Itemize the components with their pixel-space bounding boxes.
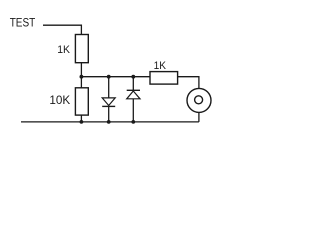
wire D1 top lead (108, 77, 110, 99)
junction D2 top (131, 75, 135, 79)
resistor R2 10K body (75, 88, 88, 115)
wire D1 bottom lead (108, 106, 110, 122)
wire D2 top lead (132, 77, 134, 91)
wire middle horizontal bus (81, 77, 198, 89)
wire R1 bottom to R2 top (80, 62, 82, 88)
resistor R3 1K body (150, 72, 178, 85)
resistor R1 1K body (75, 35, 88, 63)
svg-text:10K: 10K (49, 95, 70, 107)
svg-text:TEST: TEST (10, 17, 36, 29)
junction D1 bottom on rail (107, 120, 111, 124)
svg-text:1K: 1K (57, 44, 70, 56)
junction D2 bottom on rail (131, 120, 135, 124)
wire buzzer bottom lead (198, 112, 200, 122)
wire TEST lead to R1 top (43, 25, 81, 34)
wire D2 bottom lead (132, 99, 134, 122)
junction R2 bottom on rail (80, 120, 84, 124)
buzzer BZ1 outer circle (187, 88, 211, 112)
diode D1 (cathode down) (102, 98, 115, 107)
buzzer BZ1 inner circle (195, 96, 203, 104)
wire R2 bottom to rail (80, 115, 82, 122)
wire bottom rail (21, 121, 199, 123)
svg-text:1K: 1K (154, 60, 167, 72)
junction middle at R1/R2 (80, 75, 84, 79)
diode D2 (cathode up) (127, 90, 140, 99)
junction D1 top (107, 75, 111, 79)
